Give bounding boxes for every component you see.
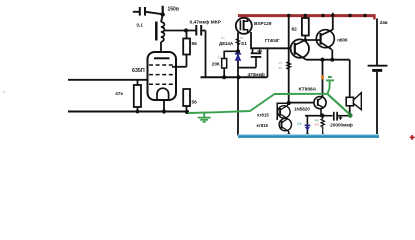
wire KT908A collector with orange mark bbox=[322, 60, 324, 97]
svg-text:кт815: кт815 bbox=[257, 112, 269, 117]
red +24V rail bbox=[238, 14, 374, 17]
capacitor 20000mkf bbox=[330, 112, 352, 128]
red plus mark bottom right bbox=[410, 135, 415, 140]
node long rail line bottom bbox=[287, 101, 291, 105]
resistor 56 cathode (lower) bbox=[183, 89, 197, 112]
green wire cathode feedback bbox=[188, 94, 327, 113]
node r0.5 bus bbox=[321, 134, 325, 138]
wire bottom node bus bbox=[201, 76, 268, 78]
resistor 82 bbox=[292, 15, 321, 42]
wire KT908A base bbox=[289, 102, 315, 104]
wire +24 rail drop to kt815 collectors bbox=[288, 16, 290, 104]
wire tap to grid cap bbox=[164, 30, 197, 32]
node tap-56 bbox=[184, 28, 188, 32]
capacitor 470mkf bbox=[238, 48, 265, 77]
wire kt815 collector loop bbox=[277, 103, 288, 120]
blue bus (negative rail) bbox=[238, 134, 379, 136]
resistor 20K bbox=[212, 51, 238, 77]
battery B1 bbox=[368, 19, 388, 136]
wire input lower-left bbox=[68, 110, 189, 112]
node green speaker bbox=[348, 113, 353, 118]
node anode-top junction bbox=[161, 12, 165, 16]
svg-text:R7: R7 bbox=[279, 61, 283, 65]
node 47k-bottom bbox=[136, 110, 140, 114]
svg-text:R2: R2 bbox=[240, 36, 244, 40]
rail junction dots bbox=[287, 14, 290, 17]
wire cathode lead bbox=[163, 99, 165, 112]
node kt815 emitter on bus bbox=[286, 133, 291, 138]
tube cathode dome bbox=[157, 88, 169, 99]
svg-text:86: 86 bbox=[279, 66, 283, 70]
wire cap out down bbox=[205, 31, 207, 78]
tube grid 1 (dashed) bbox=[149, 64, 175, 66]
resistor R 47k bbox=[115, 80, 141, 112]
wire BSP129 source to GT404G base bbox=[251, 32, 290, 48]
svg-text:56: 56 bbox=[192, 100, 198, 106]
svg-text:47к: 47к bbox=[115, 91, 123, 96]
node gate divider bbox=[236, 49, 240, 53]
svg-text:КТ908А: КТ908А bbox=[299, 86, 317, 92]
ground (green, left) bbox=[198, 113, 211, 122]
node 20k bottom bbox=[222, 75, 226, 79]
svg-text:Д814А: Д814А bbox=[219, 41, 234, 46]
green wire diagonal to speaker node bbox=[327, 94, 350, 115]
vacuum tube V1 635P envelope bbox=[148, 52, 177, 100]
node zener bottom bbox=[237, 75, 241, 79]
svg-text:D1: D1 bbox=[221, 36, 225, 40]
svg-text:635П: 635П bbox=[132, 68, 145, 74]
resistor R7 86 inline squiggle bbox=[287, 62, 291, 70]
tube anode bbox=[154, 57, 170, 59]
transistor Q5 kt815 lower bbox=[257, 118, 292, 135]
resistor R9 0.5 bbox=[315, 116, 325, 136]
node cathode-res bottom bbox=[185, 110, 189, 114]
wire stub 150v bbox=[162, 6, 164, 15]
speaker LS1 bbox=[346, 93, 361, 110]
svg-text:S1: S1 bbox=[241, 41, 247, 47]
wire p806 collector to rail bbox=[332, 13, 334, 30]
resistor 56 screen (upper) bbox=[172, 31, 197, 67]
transistor Q1 GT404G bbox=[265, 38, 309, 60]
tube grid 2 (dashed) bbox=[149, 74, 175, 76]
node kt908 collector top bbox=[320, 58, 324, 62]
transistor U1 BSP129 bbox=[236, 18, 272, 34]
svg-text:D5: D5 bbox=[297, 122, 302, 126]
wire right drop of bottom node bbox=[267, 48, 269, 77]
wire speaker branch bbox=[349, 60, 351, 117]
svg-text:кт815: кт815 bbox=[257, 123, 269, 128]
svg-text:1N5820: 1N5820 bbox=[294, 106, 310, 111]
diode D5 1N5820 bbox=[294, 106, 321, 135]
svg-text:150в: 150в bbox=[168, 7, 179, 13]
node d5 bus bbox=[305, 133, 309, 137]
svg-text:56: 56 bbox=[192, 41, 198, 47]
svg-text:0,47мкф МКР: 0,47мкф МКР bbox=[190, 18, 222, 25]
orange tick bbox=[321, 75, 324, 79]
tube grid 3 (dashed) bbox=[149, 83, 175, 85]
wire input upper-left bbox=[68, 79, 149, 81]
switch S1 squiggle bbox=[236, 39, 239, 46]
inductor L1 (anode choke) bbox=[156, 15, 164, 59]
svg-text:24в: 24в bbox=[380, 20, 388, 25]
svg-text:20К: 20К bbox=[212, 62, 220, 67]
transistor Q4 kt815 upper bbox=[257, 104, 290, 118]
svg-text:ГТ404Г: ГТ404Г bbox=[265, 38, 280, 43]
node emitter junction bbox=[320, 113, 324, 117]
svg-text:BSP129: BSP129 bbox=[254, 21, 272, 26]
svg-text:82: 82 bbox=[292, 27, 298, 33]
zener diode D814A bbox=[219, 36, 241, 60]
node cathode-bottom bbox=[162, 109, 166, 113]
capacitor 0,47mkf MKP bbox=[190, 18, 222, 35]
wire p806 emitter down bbox=[331, 50, 333, 60]
node p806 emitter bbox=[330, 58, 334, 62]
svg-text:п806: п806 bbox=[337, 38, 348, 43]
svg-text:0,5: 0,5 bbox=[315, 123, 320, 127]
transistor Q2 p806 bbox=[316, 30, 348, 50]
wire gate line down to blue bus bbox=[237, 33, 239, 136]
capacitor 0,1 bbox=[133, 7, 163, 28]
wire emitter row bbox=[306, 59, 350, 61]
green ground (up, at KT908A) bbox=[326, 77, 334, 93]
svg-text:0,1: 0,1 bbox=[137, 23, 144, 28]
transistor Q3 KT908A bbox=[299, 86, 327, 116]
svg-text:20000мкф: 20000мкф bbox=[330, 121, 352, 127]
svg-text:470мкф: 470мкф bbox=[248, 71, 265, 77]
